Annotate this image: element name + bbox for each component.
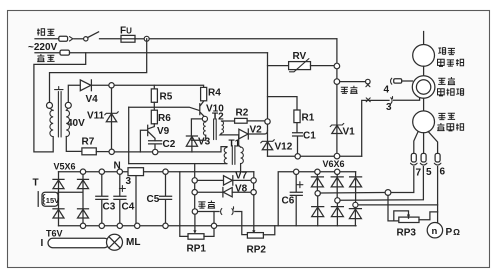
svg-text:4: 4	[384, 85, 390, 96]
node input left	[192, 209, 197, 214]
svg-text:7: 7	[416, 168, 422, 179]
wire V10 base	[129, 107, 200, 110]
wire R5-R6	[153, 102, 155, 110]
RP3 wiper link	[394, 211, 409, 221]
rail A2	[129, 163, 227, 165]
node bottom RP1	[211, 223, 216, 228]
switch S	[84, 37, 88, 41]
wire V4 to junction	[91, 84, 108, 86]
label 测速	[438, 113, 455, 119]
svg-text:RP3: RP3	[397, 228, 417, 239]
diode V4	[80, 80, 91, 91]
core	[55, 87, 63, 138]
node col1 top	[315, 169, 320, 174]
node RV	[334, 63, 340, 69]
wire: neutral tap down-left to transformer primary bottom	[34, 53, 86, 152]
label 相线 (phase line)	[37, 29, 55, 36]
node R2/V2/V12	[265, 119, 270, 124]
svg-text:V4: V4	[86, 94, 99, 105]
shaft stub	[423, 32, 425, 45]
label 离合器	[438, 89, 464, 96]
fuse Fu	[121, 35, 135, 42]
transistor V10	[200, 101, 205, 116]
diode V5 col L top	[53, 172, 64, 226]
capacitor C2	[149, 141, 162, 149]
svg-text:C5: C5	[147, 194, 160, 205]
svg-text:T: T	[33, 178, 39, 189]
wire RP3 to meter line	[419, 212, 438, 220]
node V10 emitter	[202, 116, 207, 121]
transformer secondary terminal	[65, 102, 71, 108]
terminal 7	[411, 153, 416, 162]
node bottom C4	[117, 223, 122, 228]
node bottom colR	[80, 223, 85, 228]
diode V8	[197, 191, 222, 193]
svg-text:T6V: T6V	[46, 229, 63, 239]
resistor R7	[82, 148, 96, 155]
node tap junction	[385, 190, 391, 196]
wire R1 top feed	[268, 97, 298, 110]
node bottom C3	[99, 223, 104, 228]
svg-text:C3: C3	[103, 202, 116, 213]
node V1 bottom	[334, 153, 340, 159]
wire input tap to rail	[213, 212, 215, 224]
svg-text:V11: V11	[87, 111, 105, 122]
diode col L bottom	[53, 208, 64, 210]
capacitor C4 electrolytic	[114, 174, 126, 223]
wire V2 cathode up to node	[248, 131, 267, 135]
contact 4 wire	[340, 81, 366, 83]
label 发电机	[437, 123, 463, 131]
svg-text:I: I	[41, 238, 44, 249]
svg-text:V1: V1	[343, 127, 356, 138]
rail A to T1	[114, 147, 227, 152]
neutral drop column	[267, 53, 269, 119]
V6X6 column 3	[350, 172, 362, 202]
node bottom C5	[163, 223, 168, 228]
svg-text:C2: C2	[163, 139, 176, 150]
svg-text:~220V: ~220V	[28, 42, 58, 53]
svg-text:R1: R1	[302, 113, 315, 124]
wire to switch	[74, 38, 84, 40]
svg-text:V3: V3	[198, 137, 211, 148]
diode V7	[197, 179, 223, 181]
svg-text:RV: RV	[293, 51, 307, 62]
resistor R6	[151, 110, 157, 124]
terminal 6	[435, 153, 440, 162]
V6X6 column 1	[311, 175, 323, 191]
transistor V9	[140, 124, 155, 152]
svg-text:V6X6: V6X6	[323, 159, 345, 169]
wire R2 to node	[247, 120, 265, 122]
potentiometer RP3	[399, 217, 419, 222]
phase wire to right end	[149, 38, 337, 40]
vertical V7V8 to RP2 wiper	[253, 183, 255, 231]
phase wire	[35, 38, 59, 40]
label 输出 (output)	[341, 86, 358, 94]
terminal lug on neutral	[60, 50, 70, 55]
label 输入 (input)	[198, 201, 215, 209]
node C3 top	[99, 169, 104, 174]
terminal 5	[421, 153, 426, 162]
node under V4	[109, 83, 114, 88]
label 中线 (neutral line)	[37, 54, 54, 62]
potentiometer RP1	[188, 234, 204, 240]
resistor R4	[201, 87, 207, 100]
svg-text:15V: 15V	[46, 196, 59, 205]
svg-text:R4: R4	[208, 88, 221, 99]
node col2 top	[335, 169, 340, 174]
label 转差	[438, 77, 455, 85]
wire col1 tap to terminal 7	[320, 167, 413, 194]
wire col2 tap to terminal 5	[340, 167, 423, 201]
varistor RV	[268, 65, 289, 67]
wire T1 sec bottom to rail	[240, 164, 242, 172]
diode V3	[186, 136, 197, 152]
svg-text:RP1: RP1	[187, 244, 207, 255]
svg-text:R2: R2	[236, 108, 249, 119]
node V8 left	[192, 190, 197, 195]
node V7 right	[251, 178, 256, 183]
wire T1 sec top to V2 anode	[239, 135, 241, 147]
node C6 top	[294, 169, 299, 174]
node output	[334, 79, 340, 85]
svg-text:V12: V12	[275, 142, 293, 153]
svg-text:N: N	[114, 161, 121, 172]
lamp ML	[107, 234, 123, 250]
potentiometer RP2	[247, 233, 263, 239]
tacho leads	[414, 132, 438, 154]
transformer primary terminal	[47, 102, 53, 108]
connector chevron	[70, 37, 73, 41]
wire T2 sec bottom to V2 anode	[220, 133, 239, 135]
wire T2 sec top to R2	[222, 120, 235, 122]
svg-text:C1: C1	[303, 131, 316, 142]
wire: phase drop to transformer primary top	[50, 39, 147, 103]
diode col R bottom	[78, 208, 89, 210]
AC mid link	[58, 191, 83, 193]
svg-text:R7: R7	[82, 137, 95, 148]
shaft	[423, 98, 425, 111]
node col R top	[80, 169, 85, 174]
svg-text:C6: C6	[282, 196, 295, 207]
vertical left chain	[194, 164, 196, 209]
rail B left	[59, 171, 254, 173]
wire R7 to node	[96, 151, 109, 153]
capacitor C3	[96, 174, 108, 223]
resistor R2	[235, 118, 248, 123]
node R7/V11	[109, 149, 114, 154]
terminal box 3	[128, 168, 144, 176]
resistor R1	[294, 110, 300, 123]
meter n	[427, 223, 442, 238]
svg-text:PΩ: PΩ	[446, 227, 461, 238]
wire T2 primary bottom to V3	[191, 135, 205, 140]
wire emitter box to V3	[191, 119, 202, 136]
heater bar	[48, 238, 109, 247]
svg-text:C4: C4	[122, 202, 135, 213]
diode V2	[239, 129, 248, 139]
resistor R5	[153, 85, 155, 89]
svg-text:3: 3	[126, 176, 132, 187]
rail B right with drop	[278, 172, 355, 226]
shaft	[423, 66, 425, 75]
wire RP1 wiper	[194, 214, 196, 231]
node C2 bottom	[153, 149, 158, 154]
wire terminal 6 to meter	[437, 167, 439, 224]
zener V1	[332, 125, 342, 133]
label 电动机	[438, 59, 464, 66]
node C4 top	[117, 169, 122, 174]
svg-text:V8: V8	[235, 184, 248, 195]
primary winding	[50, 108, 53, 136]
phase drop right column	[336, 39, 338, 154]
capacitor C5	[160, 174, 172, 223]
svg-text:V7: V7	[235, 171, 248, 182]
rail C	[268, 155, 362, 157]
svg-text:V5X6: V5X6	[54, 162, 76, 172]
zener V12	[267, 124, 269, 156]
terminal lug on phase	[59, 36, 68, 41]
svg-text:3: 3	[386, 102, 392, 113]
slip clutch double circle	[412, 76, 435, 99]
capacitor C6 electrolytic	[290, 175, 302, 226]
V6X6 column 2	[331, 175, 343, 198]
contact 3 wire	[362, 100, 389, 156]
zener V11	[111, 88, 113, 149]
node V8 right	[251, 190, 256, 195]
wire secondary bottom to R7	[66, 137, 82, 152]
svg-text:ML: ML	[126, 237, 140, 248]
capacitor C1	[293, 123, 303, 154]
bottom rail	[59, 225, 357, 227]
svg-text:R6: R6	[158, 113, 171, 124]
wire switch to fuse	[100, 38, 122, 40]
rail B drop to V7	[253, 172, 255, 178]
svg-text:6: 6	[440, 167, 446, 178]
svg-text:RP2: RP2	[247, 245, 267, 256]
node bottom box3	[135, 223, 140, 228]
svg-text:V9: V9	[157, 126, 170, 137]
input contact	[198, 211, 219, 213]
wire secondary top to V4	[68, 85, 80, 102]
wire col3 tap to terminal 6 line	[358, 204, 438, 206]
drive motor M	[413, 45, 435, 67]
svg-text:R5: R5	[160, 92, 173, 103]
svg-text:n: n	[432, 226, 438, 237]
node C5 top	[163, 169, 168, 174]
secondary winding 40V	[66, 108, 69, 136]
tacho generator	[413, 111, 435, 133]
vertical V10 base feed	[128, 107, 130, 163]
wire fuse to junction	[135, 38, 144, 40]
label 拖动	[438, 48, 455, 55]
svg-text:40V: 40V	[67, 118, 85, 129]
node: phase junction	[144, 36, 149, 41]
node V7 left	[192, 178, 197, 183]
neutral wire to right	[70, 52, 268, 54]
wire junction down to RP3	[388, 195, 399, 221]
diode col R top	[78, 174, 89, 223]
svg-text:5: 5	[426, 167, 432, 178]
node C1 bottom	[295, 154, 300, 159]
transformer T2	[203, 122, 205, 136]
wire box3 to bottom rail	[135, 176, 137, 226]
neutral wire	[35, 52, 60, 54]
wire junction to R4	[114, 85, 203, 87]
